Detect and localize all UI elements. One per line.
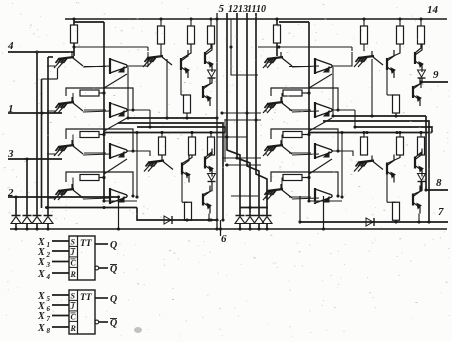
diode CD	[418, 64, 426, 78]
output Qbar label U1	[110, 264, 117, 275]
multi-emitter transistor VT5	[263, 52, 292, 68]
svg-text:X: X	[37, 257, 45, 268]
transistor AT2	[205, 44, 213, 72]
wire U2 Q out	[95, 297, 108, 299]
pin 4 label	[7, 40, 14, 52]
input X3 label	[37, 257, 51, 269]
transistor VT2 col	[110, 102, 127, 118]
wire right riser d	[340, 131, 343, 199]
wire X2	[52, 250, 69, 252]
resistor BR3	[208, 131, 215, 155]
transistor BT3	[203, 182, 212, 214]
wire left riser a	[126, 67, 129, 120]
resistor VT2R	[73, 90, 106, 102]
wire DT3 drop	[417, 214, 420, 224]
svg-text:2: 2	[46, 251, 51, 259]
wire input ladder line a	[15, 197, 17, 216]
resistor DR4	[387, 175, 400, 221]
wire pin9 link	[419, 80, 422, 88]
flip-flop U2 C label	[71, 313, 77, 322]
resistor DR1	[361, 131, 368, 155]
resistor VT8R	[282, 175, 311, 190]
resistor CR3	[418, 17, 425, 44]
wire right loop row3	[271, 129, 340, 153]
transistor AT3	[203, 78, 212, 106]
resistor AR4	[181, 70, 191, 113]
wire pin 5 vertical	[215, 13, 218, 231]
input X4 label	[37, 269, 51, 281]
transistor VT4 col	[110, 188, 127, 204]
pin 6 label	[221, 233, 227, 245]
wire left riser c	[165, 59, 168, 120]
wire BT3 drop	[207, 214, 210, 222]
wire right couplings2	[309, 74, 332, 174]
pin 14 label	[427, 4, 439, 16]
flip-flop U1 inv circle	[95, 266, 99, 270]
wire right loop row2	[271, 88, 340, 112]
diode AD	[208, 64, 216, 78]
resistor VT5R	[274, 17, 281, 56]
wire left couplings2	[104, 74, 127, 174]
svg-text:S: S	[71, 292, 76, 301]
wire ladder collector bus	[45, 206, 137, 209]
flip-flop U1 TT label	[80, 239, 93, 249]
input X2 label	[37, 247, 51, 259]
wire cross row3b	[225, 163, 261, 166]
svg-text:X: X	[37, 269, 45, 280]
transistor VT1 col	[110, 58, 127, 74]
diode VD9	[164, 216, 172, 224]
svg-text:X: X	[37, 323, 45, 334]
flip-flop U1 dividers	[69, 246, 78, 267]
wire right lower link	[307, 199, 342, 202]
resistor DR2	[397, 131, 404, 155]
wire left met feeds	[84, 67, 106, 198]
wire pin 4	[8, 50, 74, 53]
wire U1 Q out	[95, 243, 108, 245]
multi-emitter transistor VT8	[263, 184, 292, 200]
wire latch coupling	[83, 66, 110, 199]
wire cross row3a	[217, 135, 261, 159]
wire centre aux vertical	[225, 19, 231, 162]
wire input ladder line d	[48, 57, 53, 216]
transistor BT2	[205, 149, 213, 177]
resistor BR4	[182, 175, 192, 221]
wire right riser a	[331, 67, 334, 118]
multi-emitter transistor VT1	[47, 52, 83, 68]
input X6 label	[37, 301, 51, 313]
wire cross row4	[231, 195, 258, 197]
diode VD5	[235, 216, 245, 231]
pin 9 label	[433, 69, 439, 81]
svg-text:Q: Q	[110, 294, 117, 305]
wire bottom ground rail	[10, 228, 447, 230]
pin 5 label	[219, 3, 225, 15]
wire ladder aux line	[42, 68, 58, 208]
resistor CR1	[361, 17, 368, 44]
multi-emitter transistor BM	[144, 155, 173, 172]
resistor CR2	[397, 17, 404, 44]
wire left vertical feedback	[74, 22, 106, 201]
diode VD10	[366, 218, 374, 226]
wire left amp feed	[127, 52, 150, 156]
wire left riser b	[127, 110, 152, 129]
flip-flop U1 C label	[71, 259, 77, 268]
pin 1 label	[8, 103, 14, 115]
wire latch coupling	[292, 66, 319, 199]
svg-text:R: R	[70, 324, 77, 333]
output Q label U2	[110, 294, 117, 305]
input X1 label	[37, 237, 50, 249]
wire C feed	[258, 45, 352, 51]
transistor VT2 col	[315, 102, 332, 118]
flip-flop U1 box	[69, 236, 95, 280]
transistor VT3 col	[110, 143, 127, 159]
wire pin 9	[420, 81, 448, 83]
multi-emitter transistor VT7	[263, 140, 292, 156]
resistor DR3	[418, 131, 425, 155]
wire cross row2a	[220, 111, 261, 114]
wire right vertical feedback	[279, 22, 311, 201]
multi-emitter transistor CM	[354, 44, 383, 67]
wire left loop row4	[66, 172, 135, 198]
svg-text:1: 1	[47, 241, 51, 249]
diode VD2	[22, 216, 32, 231]
svg-text:9: 9	[433, 69, 439, 81]
wire left bus 1	[128, 116, 219, 119]
wire left loop row3	[66, 129, 135, 153]
wire X5	[52, 294, 69, 296]
resistor VT3R	[73, 132, 106, 146]
wire right ladder bus	[240, 206, 268, 209]
diode VD4	[43, 216, 53, 231]
svg-text:Q: Q	[110, 240, 117, 251]
transistor DT1	[387, 155, 400, 183]
transistor AT1	[181, 44, 191, 78]
resistor AR3	[208, 17, 215, 44]
wire right bus 2	[323, 121, 431, 224]
svg-text:C: C	[71, 259, 77, 268]
wire pin 13 line	[237, 13, 250, 216]
pin 13 label	[238, 4, 248, 15]
transistor CT2	[415, 44, 423, 72]
pin 11 label	[247, 4, 256, 15]
resistor BR1	[159, 131, 166, 155]
wire left bus 4	[103, 131, 225, 134]
wire X3	[52, 261, 69, 263]
transistor VT4 col	[315, 188, 332, 204]
wire pin 3	[8, 157, 62, 160]
svg-text:Q: Q	[110, 318, 117, 329]
wire left loop row2	[66, 88, 135, 112]
resistor VT4R	[73, 175, 106, 190]
wire right bus 3	[354, 127, 432, 133]
wire left bus 3	[137, 127, 225, 133]
wire right out drops	[394, 220, 397, 223]
output Qbar label U2	[110, 318, 117, 329]
wire pin 1	[8, 111, 62, 114]
svg-text:TT: TT	[80, 239, 93, 249]
svg-text:8: 8	[436, 177, 442, 189]
pin 12 label	[228, 4, 238, 15]
multi-emitter transistor VT3	[47, 140, 83, 156]
pin 10 label	[256, 4, 266, 15]
wire X6	[52, 304, 69, 306]
diode VD8	[262, 216, 272, 231]
diode VD1	[11, 216, 21, 231]
svg-text:R: R	[70, 270, 77, 279]
svg-text:7: 7	[47, 315, 51, 323]
input X8 label	[37, 323, 51, 335]
resistor AR2	[188, 17, 195, 44]
multi-emitter transistor VT6	[263, 97, 292, 113]
multi-emitter transistor VT4	[47, 184, 83, 200]
wire A feed	[72, 45, 148, 51]
resistor CR4	[387, 70, 400, 113]
transistor VT3 col	[315, 143, 332, 159]
svg-text:5: 5	[219, 3, 225, 15]
svg-text:5: 5	[47, 295, 51, 303]
pin 2 label	[7, 187, 14, 199]
wire pin 8	[425, 189, 448, 191]
multi-emitter transistor VT2	[47, 97, 83, 113]
wire AR4 drop	[185, 113, 188, 120]
transistor DT2	[415, 149, 423, 177]
flip-flop U2 dividers	[69, 300, 78, 321]
multi-emitter transistor DM	[354, 155, 383, 172]
flip-flop U2 TT label	[80, 293, 93, 303]
diode VD3	[32, 216, 42, 231]
diode VD6	[245, 216, 255, 231]
svg-text:7: 7	[438, 206, 444, 218]
svg-text:TT: TT	[80, 293, 93, 303]
svg-text:S: S	[71, 238, 76, 247]
wire pin 7 / lower output wire	[298, 196, 448, 224]
multi-emitter transistor AM	[143, 44, 172, 67]
wire X4	[52, 272, 69, 274]
wire cross row2b	[225, 118, 261, 121]
wire right amp feed	[332, 52, 353, 156]
transistor DT3	[413, 182, 422, 214]
flip-flop U2 R label	[70, 324, 77, 333]
wire right bus 1	[333, 116, 426, 190]
svg-text:3: 3	[46, 261, 51, 269]
wire lower-left output	[137, 208, 219, 222]
flip-flop U1 R label	[70, 270, 77, 279]
wire top supply rail	[65, 18, 447, 20]
svg-text:8: 8	[47, 327, 51, 335]
diode BD	[208, 169, 216, 182]
wire pin8 link	[419, 182, 427, 192]
wire CR4 drop	[394, 113, 397, 118]
wire right loop row4	[271, 172, 340, 198]
wire right ground drop	[322, 196, 325, 231]
transistor CT3	[413, 78, 422, 106]
wire pin 2	[8, 195, 119, 198]
svg-text:4: 4	[7, 40, 14, 52]
wire left lower link	[102, 199, 137, 202]
wire left riser d	[135, 131, 138, 199]
flip-flop U2 inv circle	[95, 320, 99, 324]
wire U1 Qbar out	[99, 267, 108, 269]
wire pin 11 line	[247, 13, 259, 216]
resistor BR2	[189, 131, 196, 155]
wire X7	[52, 315, 69, 317]
wire pin 12 line	[227, 13, 240, 216]
pin 8 label	[436, 177, 442, 189]
output Q label U1	[110, 240, 117, 251]
diode DD	[418, 169, 426, 182]
wire X8	[52, 326, 69, 328]
wire right riser c	[370, 59, 373, 118]
resistor VT1R	[71, 17, 78, 56]
wire input ladder line b	[26, 159, 28, 216]
resistor VT7R	[282, 132, 311, 146]
transistor BT1	[182, 155, 192, 183]
wire left bus 2	[118, 123, 225, 222]
flip-flop U2 box	[69, 290, 95, 334]
wire input ladder line c	[36, 52, 38, 216]
flip-flop U2 S label	[71, 292, 76, 301]
diode VD7	[254, 216, 264, 231]
wire right met feeds	[289, 67, 311, 198]
svg-text:C: C	[71, 313, 77, 322]
input X5 label	[37, 291, 51, 303]
flip-flop U1 J label	[70, 248, 76, 257]
resistor AR1	[158, 17, 165, 44]
pin 3 label	[7, 148, 14, 160]
svg-text:6: 6	[221, 233, 227, 245]
wire left ground drop	[117, 195, 120, 230]
svg-text:14: 14	[427, 4, 439, 16]
wire right bus 4	[308, 131, 432, 134]
flip-flop U1 S label	[71, 238, 76, 247]
wire U2 Qbar out	[99, 321, 108, 323]
wire cross row1	[229, 45, 258, 75]
svg-text:6: 6	[47, 305, 51, 313]
transistor CT1	[387, 44, 400, 78]
wire X1	[52, 240, 69, 242]
input X7 label	[37, 311, 51, 323]
svg-text:10: 10	[256, 4, 266, 15]
wire pin 6 stub	[219, 220, 222, 236]
wire pin 10 line	[256, 13, 267, 216]
wire right riser b	[332, 110, 357, 129]
svg-text:Q: Q	[110, 264, 117, 275]
flip-flop U2 J label	[70, 302, 76, 311]
svg-text:4: 4	[46, 273, 51, 281]
pin 7 label	[438, 206, 444, 218]
transistor VT1 col	[315, 58, 332, 74]
resistor VT6R	[282, 90, 311, 102]
